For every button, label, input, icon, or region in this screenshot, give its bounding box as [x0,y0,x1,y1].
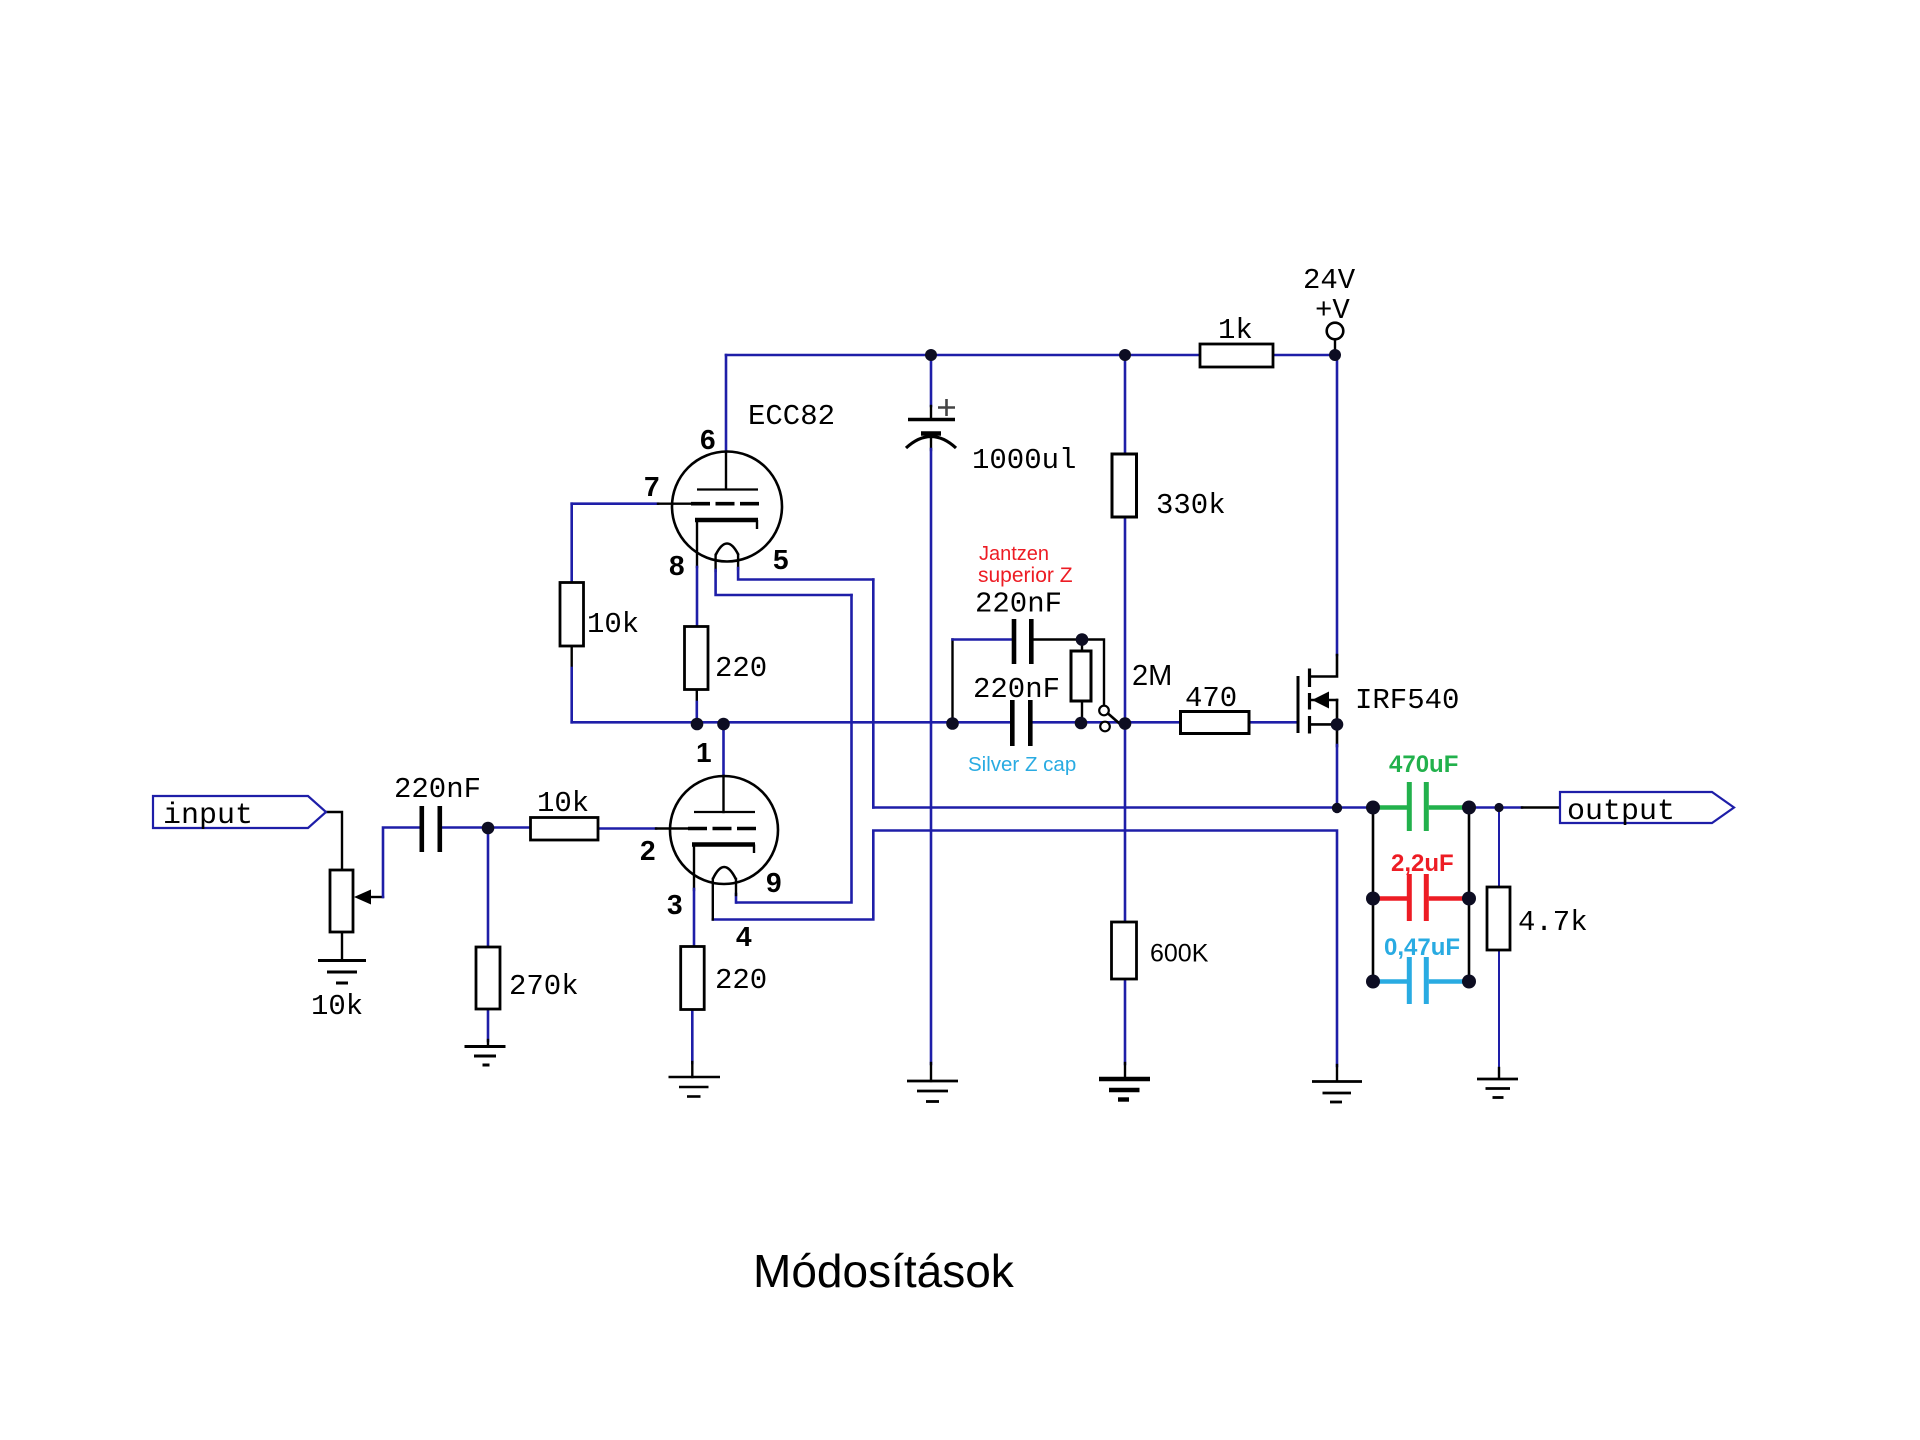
resistor 220 (tube1 cathode) [685,627,709,690]
capacitor 1000uF plate top [908,418,955,422]
resistor 10k (tube1 grid) [560,583,584,647]
wire MOSFET body stub [1312,699,1337,702]
wire tube1 grid pin7 [572,502,658,505]
svg-text:470: 470 [1185,682,1237,715]
capacitor 2,2uF plates and leads (red) [1374,874,1468,921]
resistor 10k (grid stopper) [531,818,599,841]
capacitor 220nF lower (Silver Z) plates [1012,700,1030,746]
tube V2 heater caret [713,867,736,879]
tube V2 cathode bar [692,842,755,847]
ground (tube2 cathode 220) [669,1077,721,1097]
capacitor 1000uF plus sign [938,399,955,416]
svg-text:Módosítások: Módosítások [753,1245,1015,1297]
wire upper 220nF cap horizontals [953,638,1013,641]
ground (600K) [1099,1079,1150,1100]
resistor 600K [1112,922,1137,979]
wire +V top rail [726,354,1335,357]
wire 330k branch from rail [1124,355,1127,454]
wire node B to switch top [1082,640,1104,706]
svg-text:3: 3 [667,889,683,920]
tube V2 ECC82 envelope [670,776,778,884]
wire heater vertical to tube2 pin9 [737,595,852,903]
svg-text:10k: 10k [537,787,589,820]
svg-text:2M: 2M [1132,660,1172,692]
wire 330k to 600K vertical [1124,517,1127,922]
tube V1 grid dashed [691,502,762,506]
tube V1 plate bar [697,488,758,490]
ground (4.7k) [1477,1079,1518,1098]
svg-text:1k: 1k [1218,314,1253,347]
capacitor 470uF plates and leads (green) [1374,782,1468,831]
node junction dots [482,349,1504,989]
svg-text:220: 220 [715,964,767,997]
capacitor 220nF input plates [422,806,440,852]
resistor 2M [1071,651,1091,701]
wire tube2 cathode lead pin3 [693,846,695,890]
tube V1 cathode bar [695,518,758,523]
wire tube1 heater right leg [737,555,739,569]
svg-text:4.7k: 4.7k [1518,906,1588,939]
svg-text:Silver Z cap: Silver Z cap [968,753,1076,776]
wire tube2 grid pin2 [598,827,656,830]
tube V2 plate bar [694,811,755,813]
svg-text:Jantzen: Jantzen [979,543,1049,565]
resistor 470 [1181,712,1250,734]
svg-text:10k: 10k [587,608,639,641]
svg-text:24V: 24V [1303,264,1356,297]
svg-text:1: 1 [696,737,712,768]
resistor 4.7k [1487,887,1510,950]
svg-text:+V: +V [1315,294,1350,327]
svg-text:6: 6 [700,424,716,455]
svg-text:220nF: 220nF [975,588,1062,621]
wire main node horizontal line y722 [572,721,1010,724]
svg-text:220: 220 [715,652,767,685]
ground (1000uF) [907,1081,958,1102]
wire MOSFET source stub and vertical [1310,723,1337,726]
wire MOSFET drain stub [1310,655,1337,677]
node input tag [153,796,326,828]
terminal +V circle [1327,323,1344,340]
resistor 1k [1200,344,1273,367]
wire tube1 plate lead [725,355,728,452]
wire heater vertical x873 to output line [872,580,875,808]
tube V2 grid dashed [688,827,759,831]
resistor 330k [1112,454,1137,517]
switch S1 [1099,706,1124,732]
wire pot wiper up to cap [370,896,383,898]
svg-text:1000ul: 1000ul [972,444,1076,477]
svg-text:270k: 270k [509,970,579,1003]
svg-text:IRF540: IRF540 [1355,684,1459,717]
wire 1000uF lower vertical to ground [930,434,932,450]
transistor Q1 channel segments [1308,669,1311,734]
wire tube2 plate pin1 lead [722,722,725,776]
wire 220nF pair left vertical [951,640,953,723]
wire drain vertical to rail [1336,355,1339,655]
tube V1 ECC82 envelope [672,452,782,562]
ground (pot) [318,961,366,984]
wire tube1 cathode lead [696,520,698,567]
svg-text:5: 5 [773,544,789,575]
capacitor 220nF upper (Jantzen) plates [1014,619,1031,664]
svg-text:330k: 330k [1156,489,1226,522]
svg-text:superior Z: superior Z [978,564,1073,587]
svg-text:10k: 10k [311,990,363,1023]
wire 220 R bottom lead [696,690,698,704]
svg-text:ECC82: ECC82 [748,400,835,433]
wire 1000uF branch upper [930,355,933,406]
svg-text:2,2uF: 2,2uF [1391,850,1454,877]
ground (heater return) [1312,1082,1362,1103]
wire heater return tube2 pin4 to ground drop [713,831,1337,1067]
potentiometer 10k body [330,870,353,932]
wire 4.7k branch [1498,808,1500,888]
wire input cap to junction and 10k [442,826,531,829]
node output tag [1560,792,1734,823]
tube V1 heater caret [716,544,739,556]
svg-text:7: 7 [644,471,660,502]
svg-text:470uF: 470uF [1389,751,1458,778]
capacitor 0,47uF plates and leads (cyan) [1374,957,1468,1004]
wire output cap bank left rail [1372,808,1375,982]
resistor 220 (tube2 cathode) [681,947,705,1010]
potentiometer 10k wiper arrow [354,890,371,905]
svg-text:2: 2 [640,835,656,866]
svg-text:220nF: 220nF [973,673,1060,706]
capacitor 1000uF curved plate [906,437,956,449]
wire tube1 heater left leg [714,555,716,571]
wire 2M leads [1081,640,1083,652]
wire pot bottom to ground [341,932,343,960]
transistor Q1 body-diode arrow [1312,692,1329,709]
wire junction down to 270k [487,828,490,948]
svg-text:0,47uF: 0,47uF [1384,934,1460,961]
resistor 270k [476,947,500,1009]
svg-text:output: output [1567,795,1675,829]
wire 10k bottom to main node line [571,646,573,669]
wire input tag to pot [326,812,342,870]
ground (270k) [465,1047,506,1066]
svg-text:8: 8 [669,550,685,581]
wire +V terminal stub [1334,340,1336,352]
wire 220 R2 bottom lead to ground [691,1010,694,1064]
svg-text:4: 4 [736,921,752,952]
svg-text:input: input [163,799,253,833]
wire output cap bank right rail [1468,808,1471,982]
svg-text:600K: 600K [1150,940,1209,968]
svg-text:9: 9 [766,867,782,898]
transistor Q1 IRF540 gate bar [1297,676,1300,733]
svg-text:220nF: 220nF [394,773,481,806]
wire output line y807 [873,806,1373,809]
